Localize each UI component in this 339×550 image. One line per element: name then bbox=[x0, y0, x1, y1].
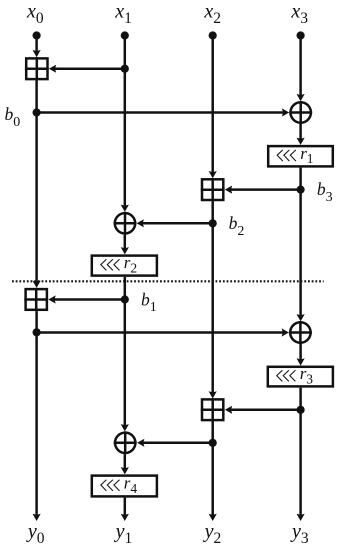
wire x3: R3 to output y3 bbox=[299, 388, 302, 517]
wire lower horizontal x2 to XOR U4 bbox=[142, 442, 213, 445]
rotation box R3 bbox=[268, 364, 333, 386]
rotation box R1 bbox=[268, 144, 333, 167]
wire b0 horizontal to XOR U1 bbox=[37, 111, 285, 114]
wire x1: input dot to XOR U2 bbox=[124, 36, 127, 208]
svg-text:2: 2 bbox=[130, 260, 137, 275]
wire x3: U3 to rotation R3 bbox=[299, 344, 302, 361]
wire x0: input dot to adder A1 bbox=[35, 36, 38, 53]
svg-text:x2: x2 bbox=[203, 0, 221, 27]
rotation box R4 bbox=[92, 474, 157, 497]
wire b3 horizontal to adder A2 bbox=[229, 188, 300, 191]
svg-text:y3: y3 bbox=[290, 520, 309, 547]
node x0 lower junction dot bbox=[33, 328, 41, 336]
svg-text:y0: y0 bbox=[26, 520, 45, 547]
wire x3: input dot to XOR U1 bbox=[299, 36, 302, 97]
svg-text:b0: b0 bbox=[5, 104, 21, 130]
node x1 input dot bbox=[121, 31, 129, 39]
node x2 lower junction dot bbox=[209, 439, 217, 447]
wire lower horizontal x0 to XOR U3 bbox=[37, 331, 285, 334]
rotation box R2 bbox=[92, 253, 157, 275]
modular adder A1 (x0 top) bbox=[25, 57, 49, 80]
xor U1 (x3 upper) bbox=[289, 101, 312, 124]
node b0 junction dot bbox=[33, 108, 41, 116]
node x2 input dot bbox=[209, 31, 217, 39]
wire x0: A1 to adder A3 bbox=[35, 80, 38, 283]
modular adder A2 (x2 upper) bbox=[201, 178, 225, 201]
node b2 junction dot bbox=[209, 219, 217, 227]
svg-text:x3: x3 bbox=[290, 0, 308, 27]
svg-text:4: 4 bbox=[130, 481, 137, 496]
svg-text:1: 1 bbox=[307, 151, 314, 166]
wire x1 horizontal to adder A1 bbox=[54, 67, 125, 70]
wire x1: U2 to rotation R2 bbox=[124, 235, 127, 250]
svg-text:b2: b2 bbox=[229, 213, 245, 239]
node b1 junction dot bbox=[121, 295, 129, 303]
svg-text:3: 3 bbox=[306, 371, 313, 386]
wire b1 horizontal to adder A3 bbox=[53, 298, 125, 301]
wire x1: R2 to XOR U4 bbox=[124, 277, 127, 427]
node x3 lower junction dot bbox=[297, 406, 305, 414]
wire x2: A2 to adder A4 bbox=[211, 201, 214, 394]
wire x1: U4 to rotation R4 bbox=[124, 454, 127, 470]
wire x3: U1 to rotation R1 bbox=[299, 124, 302, 140]
wire x2: input dot to adder A2 bbox=[211, 36, 214, 174]
xor U4 (x1 lower) bbox=[114, 431, 137, 454]
wire x0: A3 to output y0 bbox=[35, 311, 38, 516]
wire b2 horizontal to XOR U2 bbox=[141, 222, 213, 225]
wire lower horizontal x3 to adder A4 bbox=[229, 409, 300, 412]
svg-text:b1: b1 bbox=[141, 289, 157, 315]
node x3 input dot bbox=[297, 31, 305, 39]
wire x3: R1 to XOR U3 bbox=[299, 168, 302, 317]
wire x1: R4 to output y1 bbox=[124, 498, 127, 517]
svg-text:x0: x0 bbox=[26, 0, 44, 27]
node b3 junction dot bbox=[297, 186, 305, 194]
svg-text:x1: x1 bbox=[114, 0, 132, 27]
round separator dotted line bbox=[12, 280, 324, 282]
xor U3 (x3 lower) bbox=[289, 321, 312, 344]
modular adder A4 (x2 lower) bbox=[201, 398, 225, 421]
modular adder A3 (x0 lower) bbox=[24, 288, 48, 311]
svg-text:y1: y1 bbox=[114, 520, 133, 547]
svg-text:y2: y2 bbox=[203, 520, 222, 547]
node x1 junction dot (to A1) bbox=[121, 65, 129, 73]
node x0 input dot bbox=[33, 31, 41, 39]
svg-text:b3: b3 bbox=[317, 179, 333, 205]
xor U2 (x1 upper) bbox=[114, 212, 137, 235]
wire x2: A4 to output y2 bbox=[211, 421, 214, 516]
